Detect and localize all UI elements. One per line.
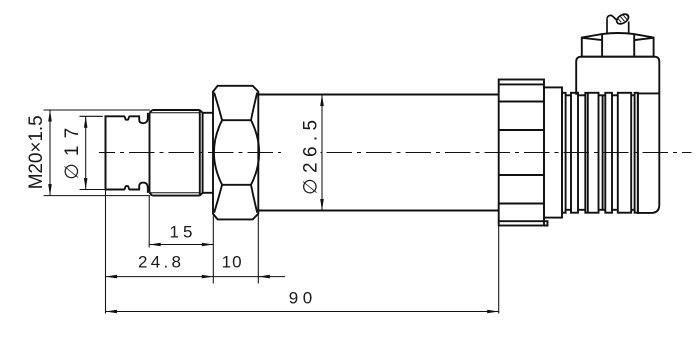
hex face line lower bbox=[222, 184, 251, 186]
centerline mask under diameter label bbox=[281, 146, 321, 159]
15 dimension line bbox=[149, 244, 213, 246]
thread OD top bbox=[152, 109, 200, 111]
collar bottom lip bbox=[544, 221, 548, 225]
face verticals bbox=[601, 34, 603, 57]
M20 top arrow bbox=[48, 110, 52, 122]
24.8 right arrow bbox=[202, 275, 214, 279]
fin 5 (wide) bbox=[618, 93, 631, 213]
broken cable stub with hatched cross-section bbox=[607, 12, 630, 34]
10 dimension line with outside tail bbox=[213, 276, 285, 278]
Ø26.5 bottom arrow bbox=[320, 199, 324, 211]
hex face line upper bbox=[222, 119, 251, 121]
cable cross-section hatching bbox=[618, 14, 629, 22]
M20x1.5 extension line bottom bbox=[44, 195, 151, 197]
groove 2 bbox=[578, 94, 585, 96]
pressure port tip outline (Ø17 nose with o-ring grooves) bbox=[106, 113, 148, 193]
svg-text:M20×1.5: M20×1.5 bbox=[26, 115, 47, 189]
cable gland hex cap bbox=[582, 33, 654, 57]
groove 4 bbox=[612, 94, 618, 96]
hex nut (wrench flats) bbox=[213, 86, 259, 220]
Ø26.5 top arrow bbox=[320, 95, 324, 107]
chamfer top-right bbox=[200, 110, 203, 113]
chamfer top-left bbox=[150, 110, 153, 113]
cooling fins / strain relief ribs bbox=[562, 93, 638, 213]
Ø26.5 dimension line bbox=[321, 95, 323, 211]
thread OD bottom bbox=[152, 195, 200, 197]
hex silhouette bbox=[213, 86, 258, 220]
top chamfer arc left bbox=[214, 93, 222, 121]
extension line at x=258.3 (hex right) bbox=[257, 214, 259, 284]
24.8 left arrow bbox=[106, 275, 118, 279]
arrowheads bbox=[48, 95, 499, 314]
extension line at x=149 (thread start) bbox=[148, 196, 150, 248]
extension line at x=498.7 (collar left, down to 90 dim) bbox=[498, 226, 500, 314]
centerline bbox=[99, 152, 692, 154]
Ø17 top arrow bbox=[84, 116, 88, 128]
middle arc left bbox=[214, 120, 222, 185]
extension line at x=213.5 (hex face) bbox=[212, 214, 214, 284]
groove 5 bbox=[631, 94, 634, 96]
fin 1 bbox=[562, 93, 566, 213]
shank left edge bbox=[202, 113, 204, 193]
90 right arrow bbox=[487, 310, 499, 314]
top chamfer arc right bbox=[251, 93, 257, 121]
groove 1 bbox=[566, 94, 571, 96]
thread root lines (thin) bbox=[150, 113, 200, 193]
fin 6 (small) bbox=[635, 93, 638, 213]
thread start face bbox=[149, 113, 151, 193]
M20x1.5 extension line top bbox=[44, 109, 151, 111]
Ø17 extension line top bbox=[80, 115, 103, 117]
chamfer bottom-right bbox=[200, 193, 203, 196]
inner chamfer diagonal left bbox=[582, 38, 602, 40]
knurled collar ring bbox=[499, 80, 548, 226]
tip profile top half bbox=[106, 113, 148, 190]
connector housing (upper body + end block, one outline) bbox=[576, 57, 659, 213]
90 dimension line bbox=[106, 311, 499, 313]
middle arc right bbox=[251, 120, 259, 185]
fin 2 bbox=[571, 93, 578, 213]
inner chamfer diagonal right bbox=[634, 38, 653, 40]
tip profile bottom half bbox=[106, 116, 148, 193]
Ø17 dimension line bbox=[85, 116, 87, 189]
90 left arrow bbox=[106, 310, 118, 314]
groove 3 bbox=[599, 94, 606, 96]
svg-text:∅17: ∅17 bbox=[62, 128, 83, 180]
M20 bottom arrow bbox=[48, 184, 52, 196]
Ø17 bottom arrow bbox=[84, 178, 88, 190]
extension line at x=105.5 (tip face, down to 90 dim) bbox=[105, 190, 107, 314]
10 right outside arrow bbox=[258, 275, 270, 279]
neck between collar and fins bbox=[544, 87, 562, 217]
fin 3 (wide, double ridge) bbox=[585, 93, 598, 213]
bottom chamfer arc left bbox=[214, 185, 222, 213]
svg-text:10: 10 bbox=[222, 252, 242, 271]
Ø17 extension line bottom bbox=[80, 189, 106, 191]
shank bottom edge bbox=[203, 192, 213, 194]
thread M20 section outline bbox=[150, 110, 214, 196]
svg-text:∅26.5: ∅26.5 bbox=[301, 120, 322, 195]
chamfer bottom-left bbox=[150, 193, 153, 196]
24.8 dimension line bbox=[106, 276, 214, 278]
15 left arrow bbox=[149, 243, 161, 247]
labels bbox=[26, 115, 322, 307]
15 right arrow bbox=[202, 243, 214, 247]
main body Ø26.5 cylinder bbox=[258, 95, 498, 211]
fin 4 bbox=[605, 93, 612, 213]
svg-text:24.8: 24.8 bbox=[138, 252, 181, 271]
M20x1.5 dimension line bbox=[49, 110, 51, 196]
thread end face bbox=[199, 110, 201, 196]
bottom chamfer arc right bbox=[251, 185, 257, 213]
shank top edge bbox=[203, 112, 213, 114]
